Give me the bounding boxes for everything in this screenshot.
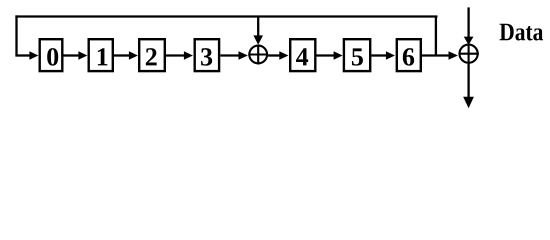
register box 0	[40, 39, 63, 71]
label: Data	[500, 24, 543, 41]
wire: 5 to 6	[371, 54, 386, 56]
label 6	[403, 48, 414, 65]
wire: 3 to XOR X1	[220, 54, 239, 56]
wire: top feedback line	[15, 15, 437, 17]
wire: Data input down into XOR X2	[467, 7, 469, 37]
register box 4	[290, 39, 315, 71]
label 1	[98, 48, 108, 65]
wire: feedback branch up from junction	[435, 17, 437, 56]
label 0	[47, 48, 58, 66]
wire: left feedback vertical	[15, 15, 17, 55]
wire: 2 to 3	[166, 54, 185, 56]
XOR gate X2	[458, 44, 478, 64]
wire: 4 to 5	[317, 54, 335, 56]
wire: XOR X2 output down with arrow	[467, 64, 469, 98]
XOR gate X1	[248, 45, 268, 65]
wire: 6 to XOR X2	[422, 54, 449, 56]
label 3	[201, 48, 212, 65]
register box 2	[139, 39, 165, 71]
wire: 0 to 1	[64, 54, 80, 56]
register box 6	[397, 39, 421, 71]
label 4	[296, 48, 308, 65]
wire: 1 to 2	[114, 54, 130, 56]
label 2	[146, 48, 157, 65]
wire: feedback tap down into XOR X1	[257, 17, 259, 37]
register box 3	[195, 39, 219, 71]
label 5	[352, 48, 363, 65]
wire: feedback into register 0	[15, 54, 30, 56]
register box 1	[89, 39, 113, 71]
register box 5	[344, 39, 370, 71]
wire: XOR X1 to 4	[268, 54, 280, 56]
